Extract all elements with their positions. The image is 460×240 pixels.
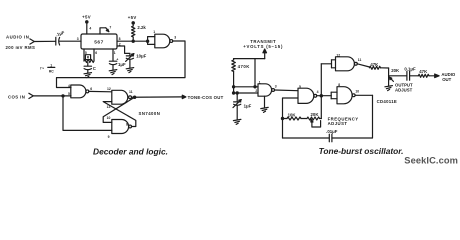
capacitor 1uF transmit (electrolytic arrow) [233,93,252,120]
svg-text:4: 4 [89,27,91,31]
wire 20K wiper loop [311,119,321,127]
svg-text:1: 1 [153,30,155,34]
svg-text:6: 6 [95,51,97,55]
node TRANSMIT +VOLTS input [243,39,283,58]
wire node vertical gate4/resistor row [320,64,322,119]
svg-text:1: 1 [259,80,261,84]
gate U3a NAND gating [255,80,276,96]
gate U2c NAND B latch [107,87,133,109]
svg-text:4: 4 [317,90,319,94]
wire latch cross B.out to C input [103,97,134,122]
wire gate1 out to gate2 [275,89,299,92]
svg-text:7: 7 [109,26,111,30]
capacitor 10uF (variable arrow) [126,54,147,62]
svg-text:f ≈: f ≈ [40,66,44,70]
caption Tone-burst oscillator [319,146,404,156]
capacitor C-in .1uF coupling [55,30,65,45]
resistor R (boxed label) [84,55,94,63]
wire to AUDIO OUT arrow [429,74,439,78]
svg-text:47K: 47K [370,62,379,67]
wire oscillator bottom left [283,137,330,139]
svg-text:+5V: +5V [82,14,91,19]
wire pin2 to 10uF cap [117,42,130,55]
gate U3c NAND osc2 [331,83,359,104]
power +5V pin4 [82,14,91,34]
svg-text:11: 11 [129,90,133,94]
wire gate2 out to gate3 [317,95,332,97]
svg-text:3: 3 [77,37,79,41]
svg-text:20K: 20K [311,112,320,117]
svg-text:5: 5 [299,85,301,89]
resistor 470K [232,59,250,95]
svg-text:+5V: +5V [128,15,137,20]
capacitor 1uF pin1 [109,57,126,69]
svg-text:2: 2 [255,89,257,93]
ground cap 1uF [109,70,117,75]
node AUDIO OUT label [441,72,456,82]
ground 10uF [126,68,134,73]
svg-text:+: + [116,57,118,61]
svg-text:.01μF: .01μF [326,129,338,134]
svg-text:SeekIC.com: SeekIC.com [404,156,458,166]
svg-text:C: C [93,66,96,71]
svg-text:47K: 47K [419,69,428,74]
capacitor .01uF feedback [326,129,338,142]
wire transmit right branch [254,59,256,88]
svg-text:0.1μF: 0.1μF [404,67,416,72]
svg-text:20K: 20K [391,68,400,73]
wire C-in to pin3 [60,37,81,41]
wire inverter output feedback to gate A [57,41,186,88]
node AUDIO IN input terminal [6,34,36,50]
svg-text:ADJUST: ADJUST [328,121,348,126]
svg-text:+VOLTS (5–15): +VOLTS (5–15) [243,44,283,49]
capacitor 0.1uF output [404,67,416,81]
wire R to cap C [87,63,89,67]
svg-text:RC: RC [49,69,54,73]
resistor 20K frequency pot [307,112,321,120]
ground arrow pin7 (bent arrow at IC top) [100,26,111,34]
wire gate1 upper input [234,86,258,88]
svg-text:4: 4 [68,84,70,88]
svg-text:12: 12 [336,53,340,57]
power +5V node 2 [128,15,137,26]
wire pin5 down [84,49,87,61]
svg-text:10: 10 [107,116,111,120]
svg-text:.1μF: .1μF [55,30,65,38]
formula f=1/RC [40,64,55,74]
ground 20K pot [385,86,393,91]
wire COS IN to gate A [33,95,71,97]
svg-text:10μF: 10μF [136,54,146,59]
wire latch cross C.out to B input [103,102,136,127]
svg-text:3: 3 [174,35,176,39]
wire gate B output to TONE-COS OUT [132,95,186,98]
wire input jumper of inverter gate [148,37,155,45]
wire COS junction down to gate C [63,96,112,130]
ground cap C [84,73,92,78]
capacitor C timing [84,66,96,73]
svg-text:8: 8 [126,122,128,126]
gate U2a inverter (NAND 7400) [153,30,176,48]
svg-text:OUT: OUT [442,77,451,82]
svg-text:200 mV RMS: 200 mV RMS [6,45,36,50]
wire cap to 47K [410,75,419,77]
svg-text:12: 12 [107,87,111,91]
wire RC feedback to gate2 lower input [281,98,298,138]
svg-text:ADJUST: ADJUST [395,87,413,92]
resistor 47K first [370,62,381,69]
watermark SeekIC.com [404,156,458,166]
wire audio-in to C-in [34,40,55,42]
ground cap 1uF transmit [233,119,241,124]
gate U3b NAND osc1 [298,85,319,104]
wire gate1 lower input [234,92,258,94]
svg-text:Tone-burst oscillator.: Tone-burst oscillator. [319,146,404,156]
svg-text:3: 3 [275,85,277,89]
wire gate3 out [355,94,372,96]
wire 47K to pot node [381,67,389,69]
svg-text:2.2k: 2.2k [137,25,146,30]
label SN7400N [139,111,161,116]
svg-text:Decoder and logic.: Decoder and logic. [93,147,168,157]
wire pin8 output line [117,37,149,42]
wire oscillator bottom right [332,95,373,138]
svg-text:TONE-COS OUT: TONE-COS OUT [188,95,224,100]
node COS IN input terminal [8,93,33,99]
caption Decoder and logic [93,147,168,157]
gate U2b NAND A [68,84,92,98]
svg-text:1μF: 1μF [118,62,126,67]
wire pin1 down [113,49,116,61]
potentiometer 20K output adjust [389,68,400,86]
IC U1 567 tone decoder [81,34,117,49]
wire gate A out to gate B [89,90,112,92]
resistor 47K second [418,69,429,77]
ground gate1 [261,107,268,112]
svg-text:1μF: 1μF [244,104,252,109]
svg-text:5: 5 [68,92,70,96]
wire node to gate4 input [321,60,335,68]
label CD4011E [377,99,398,104]
label OUTPUT ADJUST [395,82,413,92]
svg-text:COS IN: COS IN [8,95,25,100]
svg-text:CD4011E: CD4011E [377,99,398,104]
wire pin6 down [94,49,97,61]
wire transmit top rail [234,58,265,60]
wire gate1 vss ground [264,96,266,107]
svg-text:SN7400N: SN7400N [139,111,161,116]
wire pot node to cap [389,75,407,77]
svg-text:10K: 10K [288,112,297,117]
wire gate4 out [357,64,369,67]
resistor 10K [283,112,308,120]
svg-text:8: 8 [119,37,121,41]
svg-text:AUDIO IN: AUDIO IN [6,34,29,39]
label FREQUENCY ADJUST [328,116,359,126]
svg-text:567: 567 [94,39,104,45]
svg-text:470K: 470K [238,64,251,69]
gate U2d NAND C latch [107,116,132,139]
svg-text:11: 11 [358,58,362,62]
wire 10uF to ground [129,59,131,67]
svg-text:9: 9 [108,135,110,139]
svg-text:8: 8 [338,83,340,87]
svg-text:6: 6 [90,87,92,91]
gate U3d NAND buffer [336,53,362,70]
node TONE-COS OUT label [188,95,224,100]
resistor 2.2k [132,25,147,41]
svg-text:1: 1 [114,51,116,55]
svg-text:2: 2 [119,42,121,46]
svg-text:10: 10 [355,89,359,93]
